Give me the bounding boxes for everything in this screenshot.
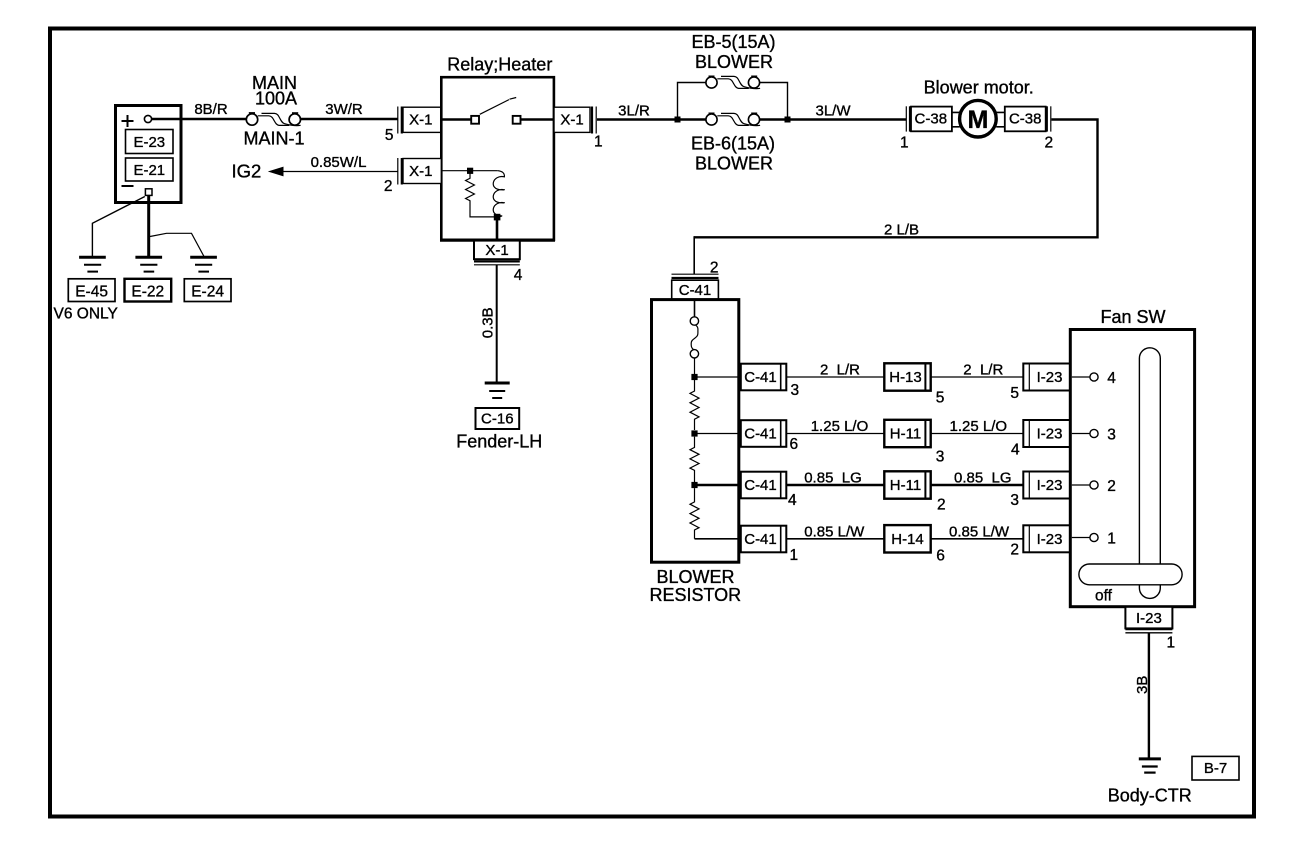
svg-text:MAIN-1: MAIN-1 xyxy=(243,129,304,149)
wire battery+ to fuse MAIN xyxy=(152,118,247,121)
ground E-24 xyxy=(190,256,217,259)
svg-text:1: 1 xyxy=(594,134,603,151)
svg-text:C-41: C-41 xyxy=(744,477,777,494)
wire drop to C-41 top xyxy=(693,236,695,274)
connector I-23 pin 2 xyxy=(1023,525,1070,552)
wire H-11 to I-23 pin4 xyxy=(931,433,1023,435)
svg-text:1: 1 xyxy=(1107,531,1116,548)
svg-text:C-41: C-41 xyxy=(744,425,777,442)
connector I-23 pin 3 xyxy=(1023,472,1070,499)
svg-text:I-23: I-23 xyxy=(1136,610,1162,627)
svg-text:5: 5 xyxy=(385,127,394,144)
svg-text:4: 4 xyxy=(788,492,797,509)
svg-text:C-41: C-41 xyxy=(679,282,712,299)
battery box xyxy=(116,106,182,203)
svg-text:Fan SW: Fan SW xyxy=(1100,307,1165,327)
svg-text:H-11: H-11 xyxy=(890,426,921,443)
wire battery- diagonal to E-45 ground xyxy=(92,197,144,257)
svg-text:2: 2 xyxy=(1107,478,1116,495)
svg-text:0.85 L/W: 0.85 L/W xyxy=(949,523,1010,540)
svg-text:2: 2 xyxy=(937,497,946,514)
svg-text:1: 1 xyxy=(1167,635,1176,652)
svg-text:3: 3 xyxy=(936,449,945,466)
wire H-14 to I-23 pin2 xyxy=(931,538,1023,540)
connector H-14 pin 6 xyxy=(884,525,930,552)
wire X-1 pin5 to switch xyxy=(441,118,471,120)
svg-text:I-23: I-23 xyxy=(1037,369,1063,386)
battery positive terminal xyxy=(144,115,151,122)
connector I-23 pin 1 (fan SW bottom) xyxy=(1125,607,1172,629)
svg-text:4: 4 xyxy=(1011,441,1020,458)
svg-text:8B/R: 8B/R xyxy=(194,101,228,118)
wire H-13 to I-23 pin5 xyxy=(931,376,1023,378)
fan SW terminal 3 xyxy=(1072,433,1090,435)
svg-text:X-1: X-1 xyxy=(485,242,508,259)
wire tap2 to C-41 pin6 xyxy=(695,433,742,435)
svg-text:E-24: E-24 xyxy=(191,284,224,301)
thermal fuse top terminal xyxy=(690,317,698,325)
svg-text:E-23: E-23 xyxy=(133,134,165,151)
connector I-23 pin 4 xyxy=(1023,420,1070,447)
battery minus sign xyxy=(122,185,134,187)
svg-text:I-23: I-23 xyxy=(1037,425,1063,442)
battery negative terminal xyxy=(145,189,152,196)
wire H-11 to I-23 pin3 xyxy=(931,484,1023,487)
arrow to IG2 xyxy=(268,167,284,177)
svg-text:EB-6(15A): EB-6(15A) xyxy=(691,134,775,154)
wire branch to EB-5 xyxy=(678,83,788,120)
svg-text:1.25 L/O: 1.25 L/O xyxy=(811,418,869,435)
svg-text:V6 ONLY: V6 ONLY xyxy=(54,306,118,323)
relay switch arm xyxy=(480,100,509,115)
svg-text:C-41: C-41 xyxy=(744,531,777,548)
fan SW terminal 1 xyxy=(1072,537,1090,539)
svg-text:RESISTOR: RESISTOR xyxy=(649,585,741,605)
svg-text:X-1: X-1 xyxy=(560,112,583,129)
svg-text:BLOWER: BLOWER xyxy=(656,567,734,587)
svg-text:0.3B: 0.3B xyxy=(479,307,496,338)
blower resistor box xyxy=(652,300,739,563)
connector H-11 pin 3 xyxy=(884,420,930,447)
resistor element R2 xyxy=(690,437,699,482)
connector X-1 pin 1 xyxy=(554,107,590,132)
connector H-13 pin 5 xyxy=(884,363,930,390)
wire C-38 pin2 down and across (2 L/B) xyxy=(694,120,1097,238)
connector E-24 label box xyxy=(184,279,231,302)
wire junction to blower motor C-38 xyxy=(788,118,907,120)
wire into thermal fuse xyxy=(694,300,696,317)
svg-text:0.85 L/W: 0.85 L/W xyxy=(804,523,865,540)
svg-text:2: 2 xyxy=(384,178,393,195)
node fuse junction right xyxy=(785,117,791,123)
wire tap1 to C-41 pin3 xyxy=(695,376,742,378)
resistor element R3 xyxy=(690,488,699,539)
svg-text:C-38: C-38 xyxy=(915,111,948,128)
svg-text:IG2: IG2 xyxy=(232,161,262,182)
svg-text:5: 5 xyxy=(936,389,945,406)
node coil bottom xyxy=(494,214,501,221)
svg-text:B-7: B-7 xyxy=(1204,760,1227,777)
svg-text:H-11: H-11 xyxy=(890,477,921,494)
connector C-41 pin 1 xyxy=(741,526,787,553)
svg-text:Relay;Heater: Relay;Heater xyxy=(447,55,552,75)
wire thermal fuse to node1 xyxy=(694,358,696,376)
svg-text:4: 4 xyxy=(1107,370,1116,387)
svg-text:X-1: X-1 xyxy=(409,163,432,180)
wire battery- to E-22 ground xyxy=(147,195,150,256)
connector H-11 pin 2 xyxy=(884,471,930,498)
wire X-1 pin2 to IG2 xyxy=(283,171,398,173)
ground Body-CTR xyxy=(1139,757,1161,760)
relay switch contact right xyxy=(513,116,521,124)
fan switch slider track xyxy=(1139,348,1160,599)
svg-text:EB-5(15A): EB-5(15A) xyxy=(691,32,775,52)
svg-text:1.25 L/O: 1.25 L/O xyxy=(950,418,1008,435)
svg-text:off: off xyxy=(1095,588,1113,605)
wire coil to X-1 pin4 xyxy=(496,217,499,241)
connector X-1 pin 4 (relay bottom) xyxy=(474,241,520,260)
connector C-38 pin 2 xyxy=(1005,107,1046,132)
fusible link MAIN-1 right terminal xyxy=(289,114,300,125)
node resistor tap 1 xyxy=(691,374,697,380)
motor connection stubs left xyxy=(952,112,960,126)
svg-text:3L/W: 3L/W xyxy=(815,103,851,120)
connector C-38 pin 1 xyxy=(905,106,907,131)
fuse EB-5(15A) xyxy=(706,77,717,88)
fusible link MAIN-1 element xyxy=(258,113,301,125)
svg-text:6: 6 xyxy=(790,436,799,453)
motor connection stubs right xyxy=(996,112,1004,126)
svg-text:2: 2 xyxy=(1010,541,1019,558)
wire tap3 to C-41 pin4 xyxy=(695,484,742,487)
svg-text:0.85 LG: 0.85 LG xyxy=(804,469,862,486)
wire X-1 pin1 to fuse junction xyxy=(597,118,679,120)
fan SW terminal 4 xyxy=(1072,376,1090,378)
wire X-1 pin2 to coil node xyxy=(441,170,498,172)
connector B-7 label box xyxy=(1192,756,1239,780)
svg-text:0.85 LG: 0.85 LG xyxy=(954,469,1012,486)
wire segments through EB-6 xyxy=(678,118,706,120)
svg-text:M: M xyxy=(967,106,988,134)
svg-text:E-21: E-21 xyxy=(133,162,165,179)
svg-text:Blower motor.: Blower motor. xyxy=(924,78,1034,98)
wire switch to X-1 pin1 xyxy=(521,118,555,120)
wire C-41 pin4 to H-11 xyxy=(786,484,884,487)
battery plus sign xyxy=(122,115,134,127)
connector X-1 pin 5 xyxy=(397,107,399,134)
svg-text:E-22: E-22 xyxy=(131,284,164,301)
wire chain bottom to C-41 pin1 xyxy=(695,538,742,540)
svg-text:3L/R: 3L/R xyxy=(618,103,650,120)
node resistor tap 2 xyxy=(691,430,697,436)
connector C-41 top (blower resistor) xyxy=(672,273,719,275)
relay U Relay;Heater xyxy=(441,77,554,240)
svg-text:5: 5 xyxy=(1010,385,1019,402)
ground C-16 xyxy=(485,382,510,385)
wire branch to E-24 ground xyxy=(150,233,204,256)
node resistor tap 3 xyxy=(691,482,697,488)
connector E-45 label box xyxy=(68,279,115,302)
svg-text:4: 4 xyxy=(514,267,523,284)
svg-text:1: 1 xyxy=(790,547,799,564)
resistor element R1 xyxy=(690,380,699,430)
svg-text:2 L/R: 2 L/R xyxy=(963,361,1003,378)
relay coil resistor xyxy=(466,174,494,217)
connector C-41 pin 4 xyxy=(741,472,787,499)
fan SW terminal 2 xyxy=(1072,484,1090,486)
thermal fuse bottom terminal xyxy=(690,350,698,358)
svg-text:H-14: H-14 xyxy=(891,531,924,548)
svg-text:C-41: C-41 xyxy=(744,369,777,386)
svg-text:3B: 3B xyxy=(1134,676,1151,694)
node coil top xyxy=(467,168,473,174)
ground E-45 xyxy=(79,256,106,259)
switch Fan SW box xyxy=(1070,330,1194,607)
svg-text:2: 2 xyxy=(1045,135,1054,152)
blower motor M xyxy=(960,100,997,137)
svg-text:H-13: H-13 xyxy=(889,369,922,386)
svg-text:Fender-LH: Fender-LH xyxy=(456,432,542,452)
wire I-23 pin1 to body ground xyxy=(1148,633,1150,758)
svg-text:Body-CTR: Body-CTR xyxy=(1108,786,1192,806)
connector C-41 pin 3 xyxy=(741,364,787,391)
relay coil xyxy=(493,171,504,217)
svg-text:C-16: C-16 xyxy=(481,411,514,428)
ground E-22 xyxy=(135,256,162,259)
wire C-41 pin1 to H-14 xyxy=(786,538,884,540)
svg-text:2 L/R: 2 L/R xyxy=(820,361,860,378)
svg-text:X-1: X-1 xyxy=(409,112,432,129)
svg-text:E-45: E-45 xyxy=(75,284,108,301)
wire fuse to relay connector X-1 pin5 xyxy=(300,118,397,121)
svg-text:BLOWER: BLOWER xyxy=(695,52,773,72)
svg-text:I-23: I-23 xyxy=(1037,531,1063,548)
wire X-1 pin4 to C-16 ground xyxy=(496,265,498,382)
relay switch contact left xyxy=(471,116,479,124)
connector C-41 pin 6 xyxy=(741,420,787,447)
wire C-41 pin6 to H-11 xyxy=(786,433,884,435)
svg-text:1: 1 xyxy=(900,135,909,152)
svg-text:C-38: C-38 xyxy=(1009,111,1042,128)
svg-text:3: 3 xyxy=(791,382,800,399)
svg-text:0.85W/L: 0.85W/L xyxy=(311,154,367,171)
wire C-41 pin3 to H-13 xyxy=(786,376,884,378)
fuse EB-6(15A) xyxy=(706,114,717,125)
connector E-22 label box xyxy=(125,279,172,302)
thermal fuse element xyxy=(691,325,698,350)
svg-text:6: 6 xyxy=(936,547,945,564)
fusible link MAIN-1 left terminal xyxy=(246,114,257,125)
connector C-16 label box xyxy=(476,408,520,429)
svg-text:I-23: I-23 xyxy=(1037,477,1063,494)
svg-text:100A: 100A xyxy=(255,89,297,109)
connector I-23 pin 5 xyxy=(1023,364,1070,391)
svg-text:3: 3 xyxy=(1010,492,1019,509)
svg-text:3: 3 xyxy=(1107,427,1116,444)
svg-text:3W/R: 3W/R xyxy=(325,101,363,118)
svg-text:BLOWER: BLOWER xyxy=(695,154,773,174)
connector E-23 label box xyxy=(126,130,174,154)
connector E-21 label box xyxy=(126,158,174,181)
svg-text:2 L/B: 2 L/B xyxy=(884,222,919,239)
connector X-1 pin 2 xyxy=(397,158,399,185)
node fuse junction left xyxy=(675,117,681,123)
fan switch knob bar xyxy=(1079,564,1182,585)
